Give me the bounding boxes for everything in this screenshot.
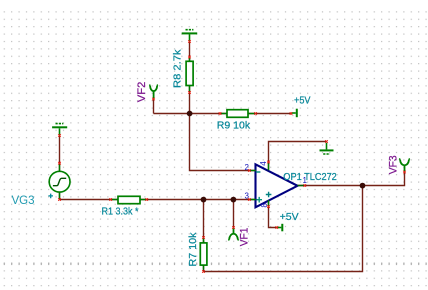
svg-text:VF2: VF2 bbox=[136, 82, 148, 103]
svg-text:+5V: +5V bbox=[294, 94, 311, 106]
svg-text:VF3: VF3 bbox=[388, 155, 400, 174]
wire: R7 branch down bbox=[203, 200, 205, 272]
resistor R8 bbox=[186, 61, 193, 85]
op-amp U1 triangle bbox=[256, 164, 298, 207]
junction at R8/top bus bbox=[187, 111, 193, 117]
svg-text:R1 3.3k *: R1 3.3k * bbox=[102, 206, 139, 218]
ground at op-amp pin 4 bbox=[320, 143, 334, 154]
svg-text:R9 10k: R9 10k bbox=[217, 120, 251, 132]
wire: feedback from output junction down and left to R7 bbox=[204, 186, 363, 272]
resistor R1 green leads bbox=[112, 199, 146, 201]
resistor R7 bbox=[200, 243, 207, 265]
resistor R7 green leads bbox=[203, 239, 205, 270]
wire: op-amp output to VF3 bbox=[297, 172, 405, 186]
probe VF1 bbox=[228, 228, 238, 240]
generator VG3 green leads bbox=[59, 165, 61, 199]
op-amp output pin 1 green stub bbox=[298, 185, 305, 187]
terminal x mark red at op-amp pin 4 bbox=[267, 161, 270, 164]
wire: op-amp pin 8 down to +5V bbox=[269, 201, 277, 228]
wire: top bus VF2 to +5V bbox=[154, 113, 292, 115]
svg-text:+5V: +5V bbox=[280, 211, 299, 223]
wire: VF1 branch down bbox=[233, 200, 235, 229]
svg-text:VF1: VF1 bbox=[238, 228, 250, 247]
wire: bottom input bus VG3 to op-amp pin 3 bbox=[60, 199, 256, 201]
resistor R9 green leads bbox=[222, 113, 255, 115]
wire: VG3 ground lead down bbox=[59, 136, 61, 200]
VG3 plus terminal mark bbox=[48, 194, 53, 199]
+5V supply top bbox=[291, 109, 297, 118]
op-amp inner plus sign bbox=[266, 192, 272, 198]
wire: junction A down and right to op-amp pin 2 bbox=[190, 114, 256, 171]
wire: op-amp pin 4 up to ground bbox=[269, 142, 327, 170]
probe VF2 bbox=[149, 85, 158, 99]
op-amp pin 4 green stub bbox=[268, 164, 270, 171]
wire: VF2 probe down to top bus bbox=[153, 99, 155, 114]
junction at VF1 branch bbox=[231, 197, 237, 203]
svg-text:OP1 TLC272: OP1 TLC272 bbox=[283, 171, 337, 183]
op-amp plus sign at pin 3 bbox=[256, 197, 262, 203]
junction at output bbox=[360, 183, 366, 189]
probe VF3 bbox=[399, 159, 410, 172]
ground above R8 bbox=[182, 30, 198, 41]
svg-text:VG3: VG3 bbox=[12, 195, 35, 207]
op-amp pin 8 green stub bbox=[268, 200, 270, 205]
voltage generator VG3 bbox=[49, 171, 70, 192]
terminal x marks red bbox=[58, 40, 406, 273]
op-amp minus sign bbox=[256, 171, 260, 173]
svg-text:4: 4 bbox=[259, 161, 268, 166]
svg-text:R7 10k: R7 10k bbox=[187, 232, 199, 267]
op-amp pin 3 green stub bbox=[251, 199, 256, 201]
wire: R8 vertical from ground to junction A bbox=[189, 42, 191, 114]
junction at R7 branch bbox=[201, 197, 207, 203]
+5V supply bottom bbox=[277, 224, 282, 232]
svg-text:R8 2.7k: R8 2.7k bbox=[172, 49, 184, 88]
ground above VG3 bbox=[52, 124, 67, 135]
page boundary dotted row bbox=[4, 263, 427, 266]
resistor R1 bbox=[118, 196, 140, 203]
op-amp pin 2 green stub bbox=[251, 170, 256, 172]
resistor R8 green leads bbox=[189, 58, 191, 91]
resistor R9 bbox=[227, 110, 248, 118]
